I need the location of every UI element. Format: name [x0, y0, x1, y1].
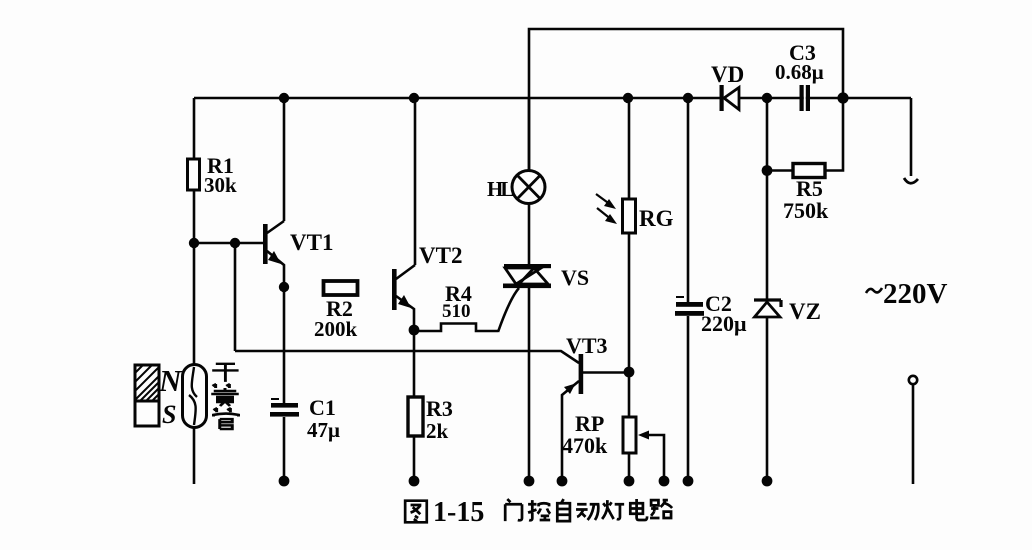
- node triac ground: [524, 476, 535, 487]
- transistor VT2: [392, 269, 397, 310]
- label R4 510: [442, 281, 472, 322]
- transistor VT3: [579, 354, 584, 394]
- svg-text:VD: VD: [711, 62, 744, 87]
- label S: [162, 400, 176, 429]
- AC hook: [904, 178, 918, 183]
- node C3 right junction: [837, 92, 848, 103]
- hanzi zi: [557, 499, 570, 521]
- triac VS: [504, 264, 551, 268]
- label VT2: [419, 243, 462, 268]
- label R2 200k: [314, 296, 358, 341]
- wire R3 bottom: [413, 436, 416, 478]
- svg-text:VT1: VT1: [290, 230, 333, 255]
- svg-text:S: S: [162, 400, 176, 429]
- capacitor C2: [676, 296, 684, 298]
- svg-text:VT3: VT3: [566, 333, 608, 358]
- wire base link: [194, 242, 264, 245]
- wire VT2 emitter to R3: [413, 330, 416, 397]
- wire triac bottom: [528, 288, 531, 478]
- node C1 ground: [279, 476, 290, 487]
- svg-text:C1: C1: [309, 395, 336, 420]
- svg-text:47μ: 47μ: [307, 418, 340, 442]
- wire top rail: [194, 97, 911, 100]
- hanzi tu: [405, 501, 427, 523]
- node VZ ground: [762, 476, 773, 487]
- wire VT1 collector up: [283, 98, 286, 221]
- wire VT2 collector up: [414, 98, 417, 265]
- node wiper ground: [659, 476, 670, 487]
- node VT3 emitter ground: [557, 476, 568, 487]
- label VT3: [566, 333, 608, 358]
- label C2 220u: [701, 291, 747, 336]
- node collector junction: [624, 367, 635, 378]
- hanzi dong: [576, 504, 598, 520]
- svg-text:HL: HL: [487, 177, 514, 201]
- node VT1 emitter: [279, 282, 289, 292]
- wire VT3 collector: [583, 371, 629, 374]
- resistor R1: [188, 159, 200, 190]
- hanzi gan: [212, 364, 238, 382]
- magnet N pole hatched: [135, 365, 159, 401]
- svg-text:200k: 200k: [314, 317, 358, 341]
- resistor R3: [408, 397, 423, 436]
- AC bottom terminal: [909, 376, 917, 384]
- label VS: [561, 265, 589, 290]
- label RG: [639, 206, 674, 231]
- lamp HL: [512, 171, 545, 204]
- wire base drop: [234, 243, 237, 351]
- resistor R5: [767, 98, 843, 171]
- hanzi dian: [630, 499, 647, 520]
- wire VZ bottom: [766, 317, 769, 478]
- wire VZ branch: [766, 98, 769, 300]
- wire RG branch: [628, 98, 631, 199]
- wire lamp to triac: [528, 204, 531, 265]
- label reed switch hanzi: [211, 364, 239, 429]
- svg-text:R3: R3: [426, 396, 453, 421]
- caption title hanzi: [505, 499, 672, 521]
- node RG rail: [623, 93, 633, 103]
- wire long base run to VT3: [235, 351, 579, 363]
- wire RG to collector node: [628, 233, 631, 372]
- node C2 ground: [683, 476, 694, 487]
- node VT2 emitter: [409, 325, 420, 336]
- photoresistor RG: [623, 199, 636, 233]
- label 220V: [866, 288, 882, 293]
- wire C2 bottom: [687, 316, 690, 478]
- node junction base: [230, 238, 240, 248]
- RG light arrows: [596, 194, 612, 220]
- node junction left: [189, 238, 199, 248]
- capacitor C1: [271, 398, 279, 400]
- wire lamp branch top: [528, 98, 531, 171]
- zener VZ: [754, 300, 781, 307]
- svg-text:220μ: 220μ: [701, 311, 747, 336]
- hanzi guan: [214, 408, 239, 429]
- resistor R2: [324, 281, 358, 295]
- node R5 left: [762, 165, 773, 176]
- hanzi men: [505, 499, 522, 521]
- svg-text:220V: 220V: [883, 278, 948, 310]
- node R3 ground: [409, 476, 420, 487]
- RP wiper: [638, 431, 649, 440]
- node RP ground: [624, 476, 635, 487]
- capacitor C3: [804, 92, 806, 104]
- hanzi kong: [528, 500, 550, 520]
- svg-text:2k: 2k: [426, 419, 449, 443]
- svg-text:0.68μ: 0.68μ: [775, 60, 824, 84]
- svg-text:VT2: VT2: [419, 243, 462, 268]
- svg-text:750k: 750k: [783, 198, 829, 223]
- resistor R4 wire: [414, 324, 498, 332]
- magnet S pole: [135, 401, 159, 426]
- label RP 470k: [562, 411, 608, 458]
- label VD: [711, 62, 744, 87]
- node VT1 collector rail: [279, 93, 289, 103]
- svg-text:N: N: [158, 363, 183, 398]
- potentiometer RP: [623, 417, 636, 453]
- wire AC top lead: [910, 98, 913, 176]
- label VT1: [290, 230, 333, 255]
- transistor VT1: [263, 224, 268, 264]
- svg-text:30k: 30k: [204, 173, 237, 197]
- label N: [158, 363, 183, 398]
- wire RP bottom: [628, 453, 631, 478]
- reed switch capsule: [183, 365, 207, 428]
- wire C2 branch: [687, 98, 690, 302]
- wire emitter to C1: [283, 287, 286, 403]
- label R3 2k: [426, 396, 453, 443]
- svg-text:510: 510: [442, 301, 471, 322]
- wire triac gate: [498, 288, 519, 332]
- svg-text:470k: 470k: [562, 433, 608, 458]
- node C2 rail: [683, 93, 693, 103]
- label HL: [487, 177, 514, 201]
- svg-text:VS: VS: [561, 265, 589, 290]
- wire R1 bottom: [193, 190, 196, 243]
- node VZ branch rail: [762, 93, 772, 103]
- wire reed branch: [193, 243, 196, 484]
- svg-text:RG: RG: [639, 206, 674, 231]
- svg-text:VZ: VZ: [789, 299, 821, 324]
- node VT2 collector rail: [409, 93, 419, 103]
- label VZ: [789, 299, 821, 324]
- reed switch contacts: [189, 367, 197, 425]
- label R1 30k: [204, 153, 237, 197]
- wire to RP: [628, 372, 631, 417]
- svg-text:1-15: 1-15: [433, 497, 484, 528]
- diode VD: [720, 85, 724, 111]
- hanzi lu: [650, 500, 672, 518]
- label C3 0.68u: [775, 40, 824, 84]
- hanzi deng: [602, 500, 624, 519]
- wire C1 bottom: [283, 417, 286, 478]
- wire rail left drop to R1: [193, 98, 196, 159]
- caption figure number: [405, 501, 427, 523]
- label C1 47u: [307, 395, 340, 442]
- hanzi huang: [211, 384, 239, 406]
- label R5 750k: [783, 176, 829, 223]
- wire top bypass: [529, 29, 843, 171]
